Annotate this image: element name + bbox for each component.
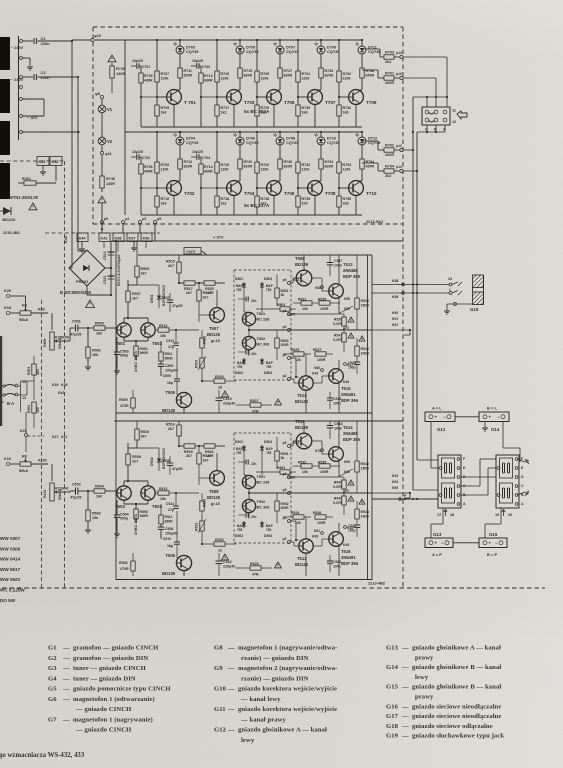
svg-text:R803: R803 bbox=[277, 303, 285, 307]
svg-text:p9: p9 bbox=[104, 217, 108, 221]
svg-text:G3: G3 bbox=[48, 665, 57, 672]
resistor R702 200R bbox=[362, 140, 378, 142]
svg-text:K38: K38 bbox=[61, 383, 67, 387]
svg-text:T704: T704 bbox=[244, 191, 255, 196]
wire emitter pair bbox=[123, 337, 125, 341]
svg-text:−: − bbox=[443, 414, 446, 419]
svg-text:100n: 100n bbox=[333, 565, 341, 569]
svg-text:D803: D803 bbox=[264, 277, 272, 281]
svg-text:50kA: 50kA bbox=[19, 318, 28, 322]
svg-text:BD140: BD140 bbox=[295, 399, 309, 404]
wire bus1 to relay bbox=[413, 489, 438, 491]
capacitor C508 47u bbox=[167, 462, 174, 464]
resistor R729 1k3 bbox=[256, 97, 258, 105]
svg-text:gniazdo pomocnicze typu CINCH: gniazdo pomocnicze typu CINCH bbox=[73, 686, 171, 693]
svg-text:magnetofon 1 (odtwarzanie): magnetofon 1 (odtwarzanie) bbox=[73, 696, 155, 703]
LED D709 bbox=[317, 46, 325, 54]
wire bbox=[239, 54, 241, 68]
svg-text:130R: 130R bbox=[106, 182, 115, 186]
capacitor C702 10u bbox=[131, 156, 136, 158]
wire relay cross 2 bbox=[461, 485, 480, 487]
transistor T702 bbox=[167, 181, 182, 196]
transistor T708 bbox=[308, 181, 323, 196]
wire from p10 bbox=[403, 77, 436, 79]
wire winding 3 bbox=[23, 98, 45, 100]
wire base net bbox=[199, 477, 210, 479]
svg-text:G14: G14 bbox=[386, 664, 399, 671]
resistor R707 120k bbox=[156, 40, 158, 71]
svg-text:430R: 430R bbox=[204, 170, 213, 174]
svg-text:10μ/25: 10μ/25 bbox=[192, 59, 203, 63]
wire emitter bbox=[355, 104, 357, 127]
svg-text:R730: R730 bbox=[284, 160, 293, 164]
svg-text:R703: R703 bbox=[385, 51, 394, 55]
resistor R304 1k3 bbox=[32, 402, 36, 413]
rail top row1 bbox=[125, 39, 362, 41]
svg-text:K47: K47 bbox=[347, 363, 353, 367]
speaker switch contact 2 bbox=[517, 492, 525, 495]
resistor R527 47R bbox=[250, 403, 261, 407]
resistor R715 120k bbox=[216, 40, 218, 71]
node p4 bbox=[288, 357, 291, 360]
transistor T802 bbox=[242, 336, 255, 349]
svg-text:795: 795 bbox=[266, 288, 272, 292]
wire bbox=[279, 54, 281, 68]
svg-text:—: — bbox=[401, 684, 409, 691]
resistor R706 430R bbox=[139, 164, 143, 174]
capacitor C505 100u bbox=[158, 363, 165, 365]
svg-text:R714: R714 bbox=[204, 165, 213, 169]
svg-text:C704: C704 bbox=[202, 156, 211, 160]
resistor R529 1k bbox=[214, 379, 225, 383]
potentiometer R410 50kMN bbox=[51, 464, 53, 481]
wire collector T702 bbox=[179, 132, 181, 137]
svg-text:R715: R715 bbox=[221, 72, 230, 76]
svg-text:R791: R791 bbox=[302, 72, 311, 76]
svg-text:R504: R504 bbox=[95, 485, 105, 489]
diode D902 BAP795 bbox=[243, 521, 245, 528]
svg-text:1k: 1k bbox=[218, 549, 222, 553]
LED D711 bbox=[358, 46, 366, 54]
wire bbox=[103, 242, 105, 249]
svg-text:T901: T901 bbox=[257, 475, 266, 479]
svg-text:WW 0414: WW 0414 bbox=[0, 557, 21, 562]
wire bbox=[320, 78, 322, 90]
svg-text:+: + bbox=[489, 414, 492, 419]
capacitor C512 4700u bbox=[110, 241, 112, 295]
resistor R728 1k3 bbox=[256, 188, 258, 196]
svg-text:CQY39: CQY39 bbox=[186, 141, 198, 145]
svg-text:gniazdo głośnikowe A — kanał: gniazdo głośnikowe A — kanał bbox=[412, 645, 501, 652]
svg-text:4k3: 4k3 bbox=[36, 369, 40, 375]
connector K42 bbox=[99, 233, 110, 242]
wire collector T706 bbox=[279, 132, 281, 137]
resistor R710 1k6 bbox=[156, 188, 158, 196]
svg-text:R6: R6 bbox=[22, 455, 27, 459]
svg-text:—: — bbox=[227, 706, 235, 713]
node K58 bbox=[321, 286, 324, 289]
svg-text:rzanie) — gniazdo DIN: rzanie) — gniazdo DIN bbox=[241, 675, 309, 682]
wire G14 down bbox=[502, 422, 504, 449]
svg-text:150R: 150R bbox=[361, 304, 370, 308]
svg-text:130R: 130R bbox=[116, 72, 125, 76]
transistor T705 bbox=[267, 90, 282, 105]
svg-text:R528: R528 bbox=[250, 562, 259, 566]
resistor R543 100R bbox=[355, 346, 359, 356]
svg-text:C520: C520 bbox=[333, 560, 341, 564]
connector K31 bbox=[37, 157, 49, 166]
svg-text:BD135: BD135 bbox=[207, 495, 221, 500]
svg-text:820R: 820R bbox=[284, 74, 293, 78]
svg-text:R524: R524 bbox=[291, 511, 299, 515]
svg-text:C507: C507 bbox=[161, 296, 170, 300]
resistor R591 360R bbox=[134, 346, 138, 356]
transistor T507 bbox=[210, 308, 225, 323]
LED D712 bbox=[358, 137, 366, 145]
svg-text:14: 14 bbox=[22, 396, 26, 400]
node K60 bbox=[321, 369, 324, 372]
svg-text:C510: C510 bbox=[163, 537, 171, 541]
svg-text:1k: 1k bbox=[218, 386, 222, 390]
resistor R506 470R bbox=[131, 561, 135, 571]
svg-text:120k: 120k bbox=[161, 168, 169, 172]
resistor R725 120k bbox=[256, 40, 258, 71]
wire bbox=[313, 382, 322, 384]
wire AC rail left bbox=[71, 41, 73, 262]
dashed vertical pot link 2 bbox=[64, 161, 66, 588]
svg-text:2N6488: 2N6488 bbox=[343, 431, 358, 436]
svg-text:D802: D802 bbox=[235, 371, 243, 375]
svg-text:15k: 15k bbox=[160, 334, 166, 338]
node p4 bbox=[122, 221, 125, 224]
svg-text:120k: 120k bbox=[221, 168, 229, 172]
wire from p14 bbox=[403, 170, 417, 172]
wire bbox=[239, 169, 241, 181]
wire base bbox=[141, 187, 157, 189]
svg-text:1k8: 1k8 bbox=[302, 111, 308, 115]
svg-text:~ 230V: ~ 230V bbox=[11, 46, 24, 50]
resistor R530 1k bbox=[214, 542, 225, 546]
capacitor C506 100u bbox=[158, 526, 165, 528]
svg-text:R539: R539 bbox=[334, 318, 342, 322]
svg-text:R792: R792 bbox=[343, 72, 352, 76]
svg-text:2N6491: 2N6491 bbox=[341, 392, 356, 397]
svg-text:R513: R513 bbox=[159, 487, 167, 491]
svg-text:200R: 200R bbox=[287, 313, 296, 317]
scan artifact black blob 4 bbox=[0, 163, 10, 199]
wire bbox=[361, 54, 363, 68]
wire bridge out bbox=[105, 267, 111, 269]
svg-text:—: — bbox=[62, 655, 70, 662]
diode D904 BAP795 bbox=[261, 521, 263, 528]
svg-text:—: — bbox=[62, 686, 70, 693]
potentiometer R6 50kA bbox=[20, 462, 31, 466]
svg-text:p13: p13 bbox=[396, 51, 402, 55]
diode D804 BAP795 bbox=[261, 358, 263, 365]
svg-text:820R: 820R bbox=[244, 165, 253, 169]
wire relay to G15 bbox=[500, 508, 502, 524]
svg-text:R535: R535 bbox=[318, 461, 326, 465]
svg-text:2N6491: 2N6491 bbox=[341, 555, 356, 560]
svg-text:795: 795 bbox=[266, 528, 272, 532]
svg-text:R733: R733 bbox=[325, 69, 334, 73]
svg-text:K99: K99 bbox=[38, 308, 45, 312]
svg-text:K48: K48 bbox=[347, 526, 353, 530]
svg-text:K39: K39 bbox=[52, 383, 58, 387]
svg-text:K55: K55 bbox=[344, 307, 350, 311]
svg-text:—: — bbox=[401, 664, 409, 671]
dashed driver box bbox=[234, 269, 291, 271]
svg-text:430R: 430R bbox=[144, 170, 153, 174]
svg-text:—: — bbox=[62, 645, 70, 652]
svg-text:WC 0,125W: WC 0,125W bbox=[0, 588, 25, 593]
resistor R717 1k2 bbox=[216, 97, 218, 105]
node p5 bbox=[288, 445, 291, 448]
svg-text:K41: K41 bbox=[61, 435, 67, 439]
svg-text:K48: K48 bbox=[343, 543, 349, 547]
svg-text:PR501: PR501 bbox=[76, 279, 89, 284]
wire emitter bbox=[173, 195, 175, 215]
wire bbox=[124, 40, 126, 215]
svg-text:R511: R511 bbox=[165, 352, 173, 356]
svg-text:C702: C702 bbox=[142, 156, 151, 160]
node p2 bbox=[288, 541, 291, 544]
svg-text:p5: p5 bbox=[283, 278, 287, 282]
dashed board outline 2213-5A2 bbox=[93, 26, 403, 28]
svg-text:B A: B A bbox=[7, 401, 14, 406]
svg-text:27p: 27p bbox=[168, 345, 174, 349]
svg-text:D804: D804 bbox=[264, 371, 272, 375]
svg-text:T708: T708 bbox=[325, 191, 336, 196]
capacitor C502 47u bbox=[75, 488, 77, 495]
svg-text:2k7: 2k7 bbox=[132, 297, 138, 301]
capacitor C701 10u bbox=[131, 65, 136, 67]
svg-text:15k: 15k bbox=[92, 353, 99, 357]
resistor R546 150R bbox=[355, 461, 359, 472]
wire emitter pair bbox=[123, 500, 125, 504]
svg-text:R705: R705 bbox=[144, 74, 153, 78]
svg-text:G13: G13 bbox=[433, 532, 442, 537]
ground bbox=[81, 242, 83, 247]
resistor R592 360R bbox=[134, 509, 138, 519]
wire collector T707 bbox=[320, 40, 322, 46]
svg-text:— kanał lewy: — kanał lewy bbox=[240, 696, 281, 703]
svg-text:R542: R542 bbox=[334, 497, 342, 501]
svg-text:360R: 360R bbox=[140, 351, 149, 355]
svg-text:tuner — gniazdo CINCH: tuner — gniazdo CINCH bbox=[73, 665, 147, 672]
svg-text:23: 23 bbox=[448, 277, 452, 281]
svg-text:tuner — gniazdo DIN: tuner — gniazdo DIN bbox=[73, 675, 136, 682]
svg-text:K32: K32 bbox=[52, 160, 59, 164]
connector block pins 11 12 bbox=[422, 107, 450, 125]
wire bbox=[55, 166, 57, 182]
svg-text:1k2: 1k2 bbox=[221, 111, 227, 115]
svg-text:50kA: 50kA bbox=[19, 469, 28, 473]
resistor R739 1k5 bbox=[297, 188, 299, 196]
svg-text:1k6: 1k6 bbox=[161, 202, 167, 206]
svg-text:p3: p3 bbox=[283, 325, 287, 329]
svg-text:G13: G13 bbox=[386, 645, 399, 652]
rail right vertical outer bbox=[371, 255, 373, 580]
resistor R517 2k7 bbox=[179, 282, 184, 284]
svg-text:R736: R736 bbox=[343, 106, 352, 110]
svg-text:R702: R702 bbox=[385, 144, 394, 148]
svg-text:16p: 16p bbox=[167, 381, 173, 385]
transistor T902 bbox=[242, 499, 255, 512]
svg-text:120k: 120k bbox=[302, 77, 310, 81]
wire collector T703 bbox=[239, 40, 241, 46]
svg-text:T516: T516 bbox=[341, 549, 351, 554]
resistor R538 100R bbox=[315, 515, 326, 519]
svg-text:gniazdo głośnikowe A — kanał: gniazdo głośnikowe A — kanał bbox=[238, 727, 327, 734]
warning triangle bbox=[275, 399, 282, 405]
wire bbox=[111, 78, 113, 93]
transistor T505 bbox=[176, 392, 191, 407]
svg-text:K55: K55 bbox=[344, 470, 350, 474]
wire bbox=[179, 145, 181, 159]
resistor R542 0,47R bbox=[342, 496, 346, 505]
wire vertical bus 2 bbox=[416, 132, 418, 460]
svg-text:470R: 470R bbox=[120, 404, 129, 408]
ground bbox=[133, 242, 135, 246]
wire headphone feed 1 bbox=[372, 284, 449, 286]
svg-text:5x BC 307A: 5x BC 307A bbox=[244, 109, 270, 114]
svg-text:K42: K42 bbox=[101, 237, 108, 241]
svg-text:47μ/25: 47μ/25 bbox=[172, 304, 183, 308]
svg-text:795: 795 bbox=[237, 365, 243, 369]
selector switch contacts bbox=[5, 385, 15, 387]
svg-text:G15: G15 bbox=[386, 684, 399, 691]
resistor R726 120k bbox=[256, 132, 258, 162]
svg-text:gniazdo korektora wejście/wyjś: gniazdo korektora wejście/wyjście bbox=[238, 706, 337, 713]
diode D802 BAP795 bbox=[243, 358, 245, 365]
svg-text:2k7: 2k7 bbox=[186, 291, 192, 295]
wire bbox=[179, 169, 181, 181]
svg-text:D502: D502 bbox=[150, 457, 154, 466]
transistor T703 bbox=[227, 90, 242, 105]
wire bbox=[25, 437, 27, 453]
LED D706 bbox=[236, 137, 244, 145]
svg-text:795: 795 bbox=[236, 451, 242, 455]
wire winding 1 bbox=[23, 40, 34, 42]
svg-text:100n: 100n bbox=[333, 402, 341, 406]
svg-text:120k: 120k bbox=[343, 168, 351, 172]
wire input bbox=[10, 463, 20, 465]
svg-text:T707: T707 bbox=[325, 100, 336, 105]
svg-text:T705: T705 bbox=[284, 100, 295, 105]
svg-text:10μ/25: 10μ/25 bbox=[132, 59, 143, 63]
svg-text:C701: C701 bbox=[142, 65, 151, 69]
resistor R535 100R bbox=[319, 464, 330, 468]
LED D704 bbox=[176, 137, 184, 145]
svg-text:430R: 430R bbox=[204, 79, 213, 83]
connector K96 bbox=[141, 233, 152, 242]
svg-text:G18: G18 bbox=[386, 723, 399, 730]
svg-text:—: — bbox=[62, 716, 70, 723]
rail top row2 bbox=[125, 131, 362, 133]
svg-text:K92: K92 bbox=[392, 323, 398, 327]
resistor R716 120k bbox=[216, 132, 218, 162]
svg-text:—: — bbox=[401, 733, 409, 740]
svg-text:D708: D708 bbox=[286, 137, 295, 141]
svg-text:1k8: 1k8 bbox=[343, 111, 349, 115]
wire bbox=[311, 277, 322, 279]
svg-text:T703: T703 bbox=[244, 100, 255, 105]
wire collector T708 bbox=[320, 132, 322, 137]
svg-text:A: A bbox=[443, 128, 446, 132]
lamp V2 bbox=[98, 137, 106, 145]
svg-text:BD139: BD139 bbox=[162, 571, 176, 576]
svg-text:2213-5A2: 2213-5A2 bbox=[366, 219, 384, 224]
svg-text:820R: 820R bbox=[184, 74, 193, 78]
wire emitter bbox=[314, 104, 316, 127]
wire G12-G14 bbox=[455, 416, 479, 418]
svg-text:BC 308: BC 308 bbox=[257, 343, 270, 347]
svg-text:T505: T505 bbox=[165, 390, 175, 395]
svg-text:430R: 430R bbox=[144, 79, 153, 83]
svg-text:p5: p5 bbox=[157, 217, 161, 221]
svg-text:R07/1-5-2×4700μ40: R07/1-5-2×4700μ40 bbox=[117, 255, 121, 286]
resistor R802 200R bbox=[275, 338, 279, 348]
svg-text:WW 0922: WW 0922 bbox=[0, 577, 21, 582]
rail bottom row1 bbox=[141, 126, 362, 128]
wire bbox=[320, 54, 322, 68]
wire wiper bbox=[57, 491, 70, 493]
svg-text:2k7: 2k7 bbox=[168, 427, 174, 431]
svg-text:R541: R541 bbox=[334, 334, 342, 338]
svg-text:C513: C513 bbox=[166, 339, 174, 343]
capacitor C703 10u bbox=[191, 65, 196, 67]
svg-text:φ10: φ10 bbox=[94, 34, 101, 38]
wire base bbox=[201, 187, 217, 189]
svg-text:R523: R523 bbox=[195, 360, 199, 368]
svg-text:R739: R739 bbox=[116, 67, 125, 71]
svg-text:K61: K61 bbox=[314, 529, 320, 533]
wire bbox=[10, 295, 26, 297]
svg-text:15k: 15k bbox=[160, 497, 166, 501]
svg-text:— gniazdo CINCH: — gniazdo CINCH bbox=[75, 727, 132, 734]
svg-text:R508: R508 bbox=[132, 455, 141, 459]
resistor R713 430R bbox=[199, 73, 203, 83]
resistor R718 1k2 bbox=[216, 188, 218, 196]
svg-text:K58: K58 bbox=[315, 286, 321, 290]
svg-text:820R: 820R bbox=[325, 74, 334, 78]
svg-text:K58: K58 bbox=[344, 297, 350, 301]
resistor R522 360R bbox=[159, 515, 163, 524]
svg-text:R719: R719 bbox=[244, 69, 253, 73]
resistor R516 2k7 bbox=[178, 421, 180, 425]
rail bottom row2 bbox=[141, 214, 362, 216]
svg-text:G17: G17 bbox=[386, 713, 399, 720]
svg-text:—: — bbox=[227, 686, 235, 693]
svg-text:ego wzmacniacza WS-432, 433: ego wzmacniacza WS-432, 433 bbox=[0, 752, 85, 759]
svg-text:p14: p14 bbox=[396, 165, 402, 169]
transistor T506 bbox=[176, 555, 191, 570]
node K18 bbox=[6, 311, 10, 315]
potentiometer R5 50kA bbox=[20, 311, 31, 315]
svg-text:R507: R507 bbox=[132, 292, 141, 296]
svg-text:K40: K40 bbox=[58, 391, 64, 395]
connector K98 bbox=[113, 233, 124, 242]
resistor R531 10k bbox=[301, 301, 312, 305]
relay block right bbox=[496, 455, 519, 508]
svg-text:C501: C501 bbox=[72, 320, 81, 324]
svg-text:R530: R530 bbox=[215, 538, 224, 542]
svg-text:100R: 100R bbox=[320, 470, 329, 474]
svg-text:100n: 100n bbox=[334, 264, 342, 268]
svg-text:R509: R509 bbox=[141, 267, 150, 271]
svg-text:2k7: 2k7 bbox=[141, 435, 147, 439]
